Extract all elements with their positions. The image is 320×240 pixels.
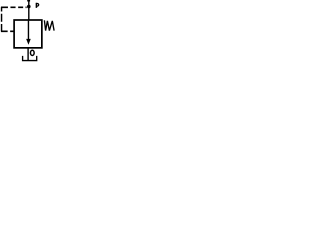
pilot line bottom segment (dashed) — [1, 30, 14, 32]
pilot line top segment (dashed) — [1, 6, 27, 8]
port P supply line — [28, 1, 30, 21]
spring — [44, 20, 54, 30]
label P (drawn as paths) — [36, 3, 38, 8]
outlet line to tank — [27, 48, 29, 61]
pilot line left segment (dashed) — [1, 7, 3, 31]
port P top tick — [27, 0, 30, 2]
flow arrow head — [26, 39, 31, 45]
junction dot on P line — [27, 5, 31, 9]
tank symbol — [23, 56, 37, 61]
label O (drawn as path) — [30, 50, 34, 55]
flow arrow shaft — [27, 21, 29, 40]
valve envelope — [14, 20, 42, 48]
